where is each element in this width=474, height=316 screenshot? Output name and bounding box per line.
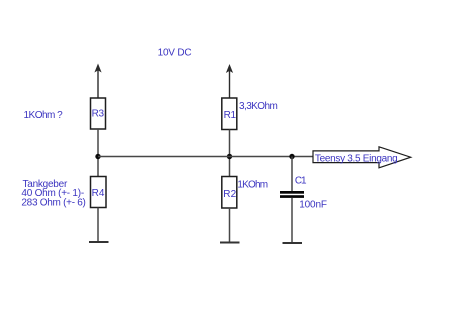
wire C1 to ground <box>291 198 293 243</box>
node junction middle <box>227 154 232 159</box>
capacitor C1 <box>280 175 327 210</box>
svg-text:Teensy 3.5 Eingang: Teensy 3.5 Eingang <box>315 153 398 164</box>
wire R3 to node <box>97 129 99 177</box>
power arrow middle branch <box>226 64 233 98</box>
svg-text:R4: R4 <box>92 188 105 199</box>
power arrow left branch <box>94 64 101 98</box>
svg-text:C1: C1 <box>295 175 307 186</box>
svg-text:R3: R3 <box>92 108 105 119</box>
svg-text:100nF: 100nF <box>299 200 327 211</box>
wire node to C1 <box>291 157 293 192</box>
resistor R2 <box>222 177 237 209</box>
svg-text:R2: R2 <box>223 189 236 200</box>
net flag Teensy 3.5 Eingang <box>313 147 411 168</box>
resistor R1 <box>222 98 237 130</box>
svg-text:1KOhm: 1KOhm <box>237 180 268 191</box>
resistor R4 <box>91 177 107 208</box>
wire R2 to ground <box>229 208 231 243</box>
node junction left <box>95 154 100 159</box>
svg-text:10V DC: 10V DC <box>158 48 192 59</box>
ground capacitor <box>283 242 303 244</box>
wire horizontal bus <box>98 156 313 158</box>
svg-text:3,3KOhm: 3,3KOhm <box>239 101 278 112</box>
svg-text:283 Ohm (+- 6): 283 Ohm (+- 6) <box>21 198 86 209</box>
ground left <box>89 241 109 243</box>
wire R4 to ground <box>97 208 99 243</box>
svg-text:1KOhm ?: 1KOhm ? <box>24 110 64 121</box>
ground middle <box>220 242 240 244</box>
node junction capacitor <box>289 154 294 159</box>
svg-text:R1: R1 <box>224 110 237 121</box>
wire R1 to node <box>229 130 231 177</box>
resistor R3 <box>91 98 106 129</box>
